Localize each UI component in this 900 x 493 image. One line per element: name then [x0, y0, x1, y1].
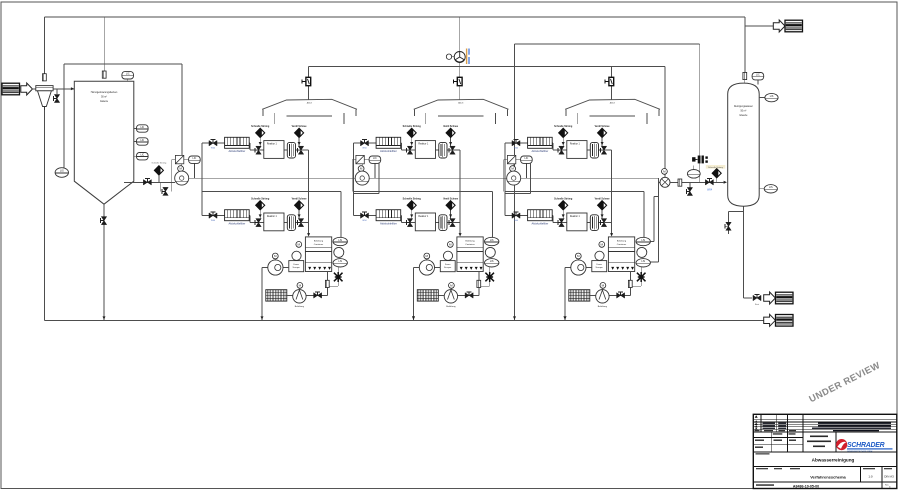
svg-text:50 m³: 50 m³ [101, 96, 107, 99]
arrowhead drain [103, 316, 106, 319]
SCHRADER logo [836, 439, 893, 453]
feed pump P2 [352, 155, 381, 191]
wire pump discharge to tank [670, 181, 723, 183]
svg-text:LIS: LIS [770, 95, 774, 98]
wire inlet to funnel [32, 88, 75, 90]
tank top level instrument [127, 79, 129, 81]
pump 3 frame piping [505, 163, 531, 194]
hood riser valve 3 [605, 77, 614, 85]
level instrument left [55, 168, 68, 178]
fan riser valve [453, 77, 462, 85]
tank top flow element [102, 71, 106, 78]
svg-text:LIS: LIS [60, 169, 64, 173]
outlet diamond [158, 175, 160, 182]
revision table lines [753, 420, 897, 430]
tank top flow element [743, 72, 747, 79]
svg-text:Istwerte: Istwerte [739, 114, 748, 117]
treatment train 2 [353, 99, 508, 320]
treatment train 1 [202, 99, 357, 320]
control valve W04 [705, 179, 713, 185]
outlet valve to connector [753, 294, 761, 300]
flow instrument oval [693, 166, 695, 170]
wire fan riser [459, 17, 461, 52]
wire hood riser 1 [307, 67, 309, 100]
outlet connector block [776, 292, 794, 304]
revision marks column [755, 415, 758, 430]
revision row smudges [755, 423, 892, 432]
tank drain branch [729, 212, 744, 235]
wire return drop right [699, 44, 701, 182]
tank side instrument 1 [134, 128, 137, 130]
wire manifold drop to transfer pump [664, 67, 666, 178]
wire hood manifold [308, 66, 665, 68]
svg-text:50 m³: 50 m³ [740, 110, 746, 113]
svg-text:Schnelle Strömg: Schnelle Strömg [152, 162, 167, 165]
highlighted label [706, 165, 726, 169]
top right connector block [785, 20, 803, 32]
wire pump transfer header [189, 177, 659, 179]
outlet hollow arrow [764, 292, 776, 304]
wire funnel drain [43, 110, 45, 320]
hood riser valve 1 [302, 77, 311, 85]
svg-text:Reinigungswasser: Reinigungswasser [734, 105, 753, 108]
wire loop to pump instrument [180, 154, 182, 156]
feed pump P3 [504, 155, 533, 191]
bottom manifold hollow arrow [764, 314, 776, 326]
approvals grid [753, 432, 836, 452]
drain junction arrows [412, 316, 415, 319]
outlet valve [143, 179, 151, 185]
project cell text [807, 436, 831, 448]
wire right tank vent drop [744, 17, 746, 73]
wire to top-right connector [745, 25, 774, 27]
svg-text:SCHRADER: SCHRADER [847, 442, 885, 449]
svg-text:DIN A3: DIN A3 [884, 475, 894, 479]
discharge diamond [716, 178, 718, 183]
tank side instrument 3 [134, 155, 137, 157]
valve under inlet line [56, 89, 58, 94]
svg-text:1:0: 1:0 [868, 475, 873, 479]
number row [756, 484, 774, 486]
wire to bottom-right connector upper [742, 206, 744, 298]
treatment train 3 [505, 99, 660, 320]
feed pump P1 [172, 155, 201, 191]
arrowhead into tank [71, 87, 74, 90]
FI cluster on return drop [692, 156, 708, 164]
discharge sight glass [678, 179, 682, 186]
subtitle row [756, 468, 800, 469]
svg-text:A8486-10-05-00: A8486-10-05-00 [793, 484, 819, 488]
TITLE BLOCK [753, 414, 897, 489]
level loop left [64, 64, 182, 168]
drain valve [100, 217, 106, 225]
branch valve below pump line [689, 182, 691, 187]
svg-text:Verfahrensschema: Verfahrensschema [810, 475, 846, 480]
wire riser funnel vent [43, 17, 45, 74]
wire top vent manifold [44, 16, 744, 18]
svg-text:Schnelle Strömg: Schnelle Strömg [708, 166, 723, 169]
svg-text:Abwasserreinigung: Abwasserreinigung [812, 458, 855, 463]
svg-text:Istwerte: Istwerte [100, 100, 109, 103]
CLEAN WATER TANK [728, 83, 760, 206]
tank right instrument upper [759, 97, 765, 99]
tank side instrument 2 [134, 141, 137, 143]
bypass link [160, 182, 162, 191]
wire bottom drain manifold [44, 319, 763, 321]
transfer pump P4 [660, 169, 670, 188]
wire riser tank top vent [103, 17, 105, 71]
flow element on funnel vent [43, 74, 47, 81]
tank drain valve [725, 222, 731, 230]
funnel strainer [36, 86, 53, 110]
svg-text:Homogenisierungsbecken: Homogenisierungsbecken [91, 91, 118, 94]
tank top instrument [757, 80, 759, 85]
svg-text:LIS: LIS [769, 186, 773, 189]
transfer pump suction piping [651, 178, 661, 262]
INLET connector block [2, 83, 20, 95]
wire return header [515, 43, 700, 45]
wire return drop left [514, 44, 516, 320]
top right hollow arrow [773, 20, 785, 32]
tank right instrument lower [759, 188, 764, 190]
HOMOGENISATION TANK [74, 81, 134, 204]
pump 2 frame piping [353, 163, 379, 194]
svg-text:Strat: Strat [755, 303, 760, 306]
owner row [753, 451, 897, 453]
svg-text:W04: W04 [707, 188, 713, 191]
inlet hollow arrow [21, 83, 33, 95]
bottom manifold connector block [776, 315, 794, 327]
bypass valve [162, 187, 168, 195]
tank outlet line [124, 181, 175, 183]
FAN unit [446, 49, 469, 65]
wire hood riser 3 [610, 67, 612, 100]
tank drain [103, 204, 105, 320]
